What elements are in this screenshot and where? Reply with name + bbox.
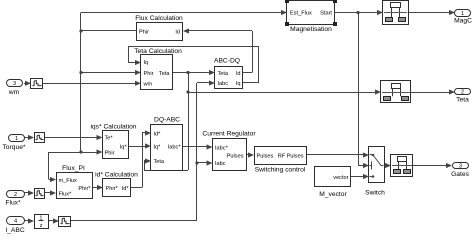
svg-text:Id*: Id* xyxy=(122,186,130,192)
svg-text:Torque*: Torque* xyxy=(2,144,25,151)
svg-text:Switching control: Switching control xyxy=(255,167,306,174)
svg-text:wm: wm xyxy=(8,89,20,96)
svg-text:Flux Calculation: Flux Calculation xyxy=(135,15,183,22)
svg-text:M_vector: M_vector xyxy=(319,191,347,198)
svg-text:1: 1 xyxy=(461,11,464,17)
svg-text:Id: Id xyxy=(236,71,241,77)
svg-text:Iabc: Iabc xyxy=(218,81,229,87)
svg-text:MagC: MagC xyxy=(454,17,472,24)
svg-text:Id*: Id* xyxy=(154,131,162,137)
svg-text:Flux_PI: Flux_PI xyxy=(62,165,85,172)
svg-text:3: 3 xyxy=(13,81,16,87)
svg-text:Switch: Switch xyxy=(365,189,385,196)
svg-text:id* Calculation: id* Calculation xyxy=(95,171,138,178)
svg-text:Phir: Phir xyxy=(105,151,115,157)
svg-text:2: 2 xyxy=(461,90,464,96)
svg-text:3: 3 xyxy=(459,164,462,170)
svg-text:1: 1 xyxy=(15,136,18,142)
svg-text:Gates: Gates xyxy=(451,171,469,178)
svg-text:Flux*: Flux* xyxy=(5,199,21,206)
svg-text:Iabc*: Iabc* xyxy=(215,145,229,151)
svg-text:4: 4 xyxy=(14,219,17,225)
svg-text:Teta: Teta xyxy=(159,71,170,77)
svg-text:wm: wm xyxy=(143,82,153,88)
svg-text:Est_Flux: Est_Flux xyxy=(290,11,312,17)
svg-text:Iq*: Iq* xyxy=(120,144,128,150)
svg-text:Pulses: Pulses xyxy=(257,153,274,159)
svg-text:Teta: Teta xyxy=(456,96,469,103)
svg-text:Te*: Te* xyxy=(105,136,114,142)
svg-text:2: 2 xyxy=(14,192,17,198)
svg-text:vector: vector xyxy=(333,175,348,181)
svg-text:DQ-ABC: DQ-ABC xyxy=(154,116,180,123)
svg-text:Pulses: Pulses xyxy=(227,153,244,159)
svg-text:RF Pulses: RF Pulses xyxy=(278,153,304,159)
svg-text:Iq: Iq xyxy=(236,81,241,87)
svg-text:I_ABC: I_ABC xyxy=(5,227,24,234)
svg-text:Teta: Teta xyxy=(154,159,165,165)
svg-text:Phir: Phir xyxy=(139,29,149,35)
svg-text:Current Regulator: Current Regulator xyxy=(202,131,256,138)
svg-text:Phir: Phir xyxy=(144,71,154,77)
svg-text:Iq*: Iq* xyxy=(154,144,162,150)
svg-text:Iabc*: Iabc* xyxy=(168,144,182,150)
svg-text:Magnetisation: Magnetisation xyxy=(290,26,332,33)
svg-text:Phir*: Phir* xyxy=(106,186,119,192)
svg-text:Iabc: Iabc xyxy=(215,161,226,167)
svg-text:Phir*: Phir* xyxy=(78,186,91,192)
svg-text:Iq: Iq xyxy=(144,60,149,66)
svg-text:Id: Id xyxy=(175,29,180,35)
svg-text:Teta: Teta xyxy=(218,71,229,77)
svg-text:m_Flux: m_Flux xyxy=(59,178,78,184)
svg-text:Start: Start xyxy=(320,11,332,17)
svg-text:ABC-DQ: ABC-DQ xyxy=(214,58,240,65)
svg-text:Teta Calculation: Teta Calculation xyxy=(134,48,182,55)
svg-text:z: z xyxy=(40,223,43,229)
svg-text:Flux*: Flux* xyxy=(59,191,73,197)
svg-text:iqs* Calculation: iqs* Calculation xyxy=(90,124,136,131)
